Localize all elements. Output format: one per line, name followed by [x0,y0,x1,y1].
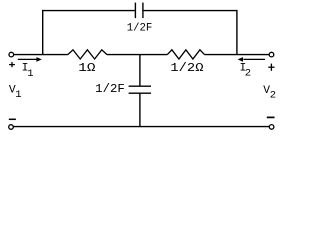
wire: top rail right segment [143,10,237,12]
terminal: port 2 lower (open circle) [269,125,274,130]
terminal: port 1 upper (open circle) [9,52,14,57]
current arrow I1 (points right) [18,58,38,60]
svg-text:1: 1 [15,89,21,101]
wire: main rail, port1 to resistor 1 [14,54,68,56]
svg-text:1/2Ω: 1/2Ω [170,62,203,75]
wire: bottom rail [13,126,269,128]
polarity − (port 2) [267,116,275,118]
resistor 1Ω (zigzag) [68,50,107,59]
wire: top rail left segment [42,10,135,12]
capacitor 1/2F shunt, bottom plate [129,92,151,94]
svg-text:1Ω: 1Ω [78,62,95,75]
polarity + (port 2) [268,66,274,68]
svg-text:1: 1 [27,68,33,80]
svg-text:2: 2 [245,68,251,80]
polarity − (port 1) [9,118,16,120]
polarity + (port 1) [9,64,15,66]
wire: right riser from main rail to top rail [236,10,238,55]
capacitor 1/2F top (series), left plate [134,3,136,19]
wire: left riser from main rail to top rail [42,10,44,55]
terminal: port 1 lower (open circle) [9,125,14,130]
wire: main rail, resistor 1 to resistor 2 [107,54,167,56]
svg-text:1/2F: 1/2F [127,23,153,35]
wire: main rail, resistor 2 to port 2 [205,54,270,56]
capacitor 1/2F shunt, top plate [129,85,151,87]
wire: middle riser upper (main rail down to shunt capacitor) [139,55,141,87]
current arrow I2 (points left) [243,58,265,60]
svg-text:1/2F: 1/2F [95,83,125,96]
terminal: port 2 upper (open circle) [269,52,274,57]
wire: middle riser lower (shunt capacitor down to bottom rail) [139,93,141,127]
svg-text:2: 2 [270,90,276,102]
capacitor 1/2F top (series), right plate [142,3,144,19]
resistor 1/2Ω (zigzag) [167,50,204,59]
